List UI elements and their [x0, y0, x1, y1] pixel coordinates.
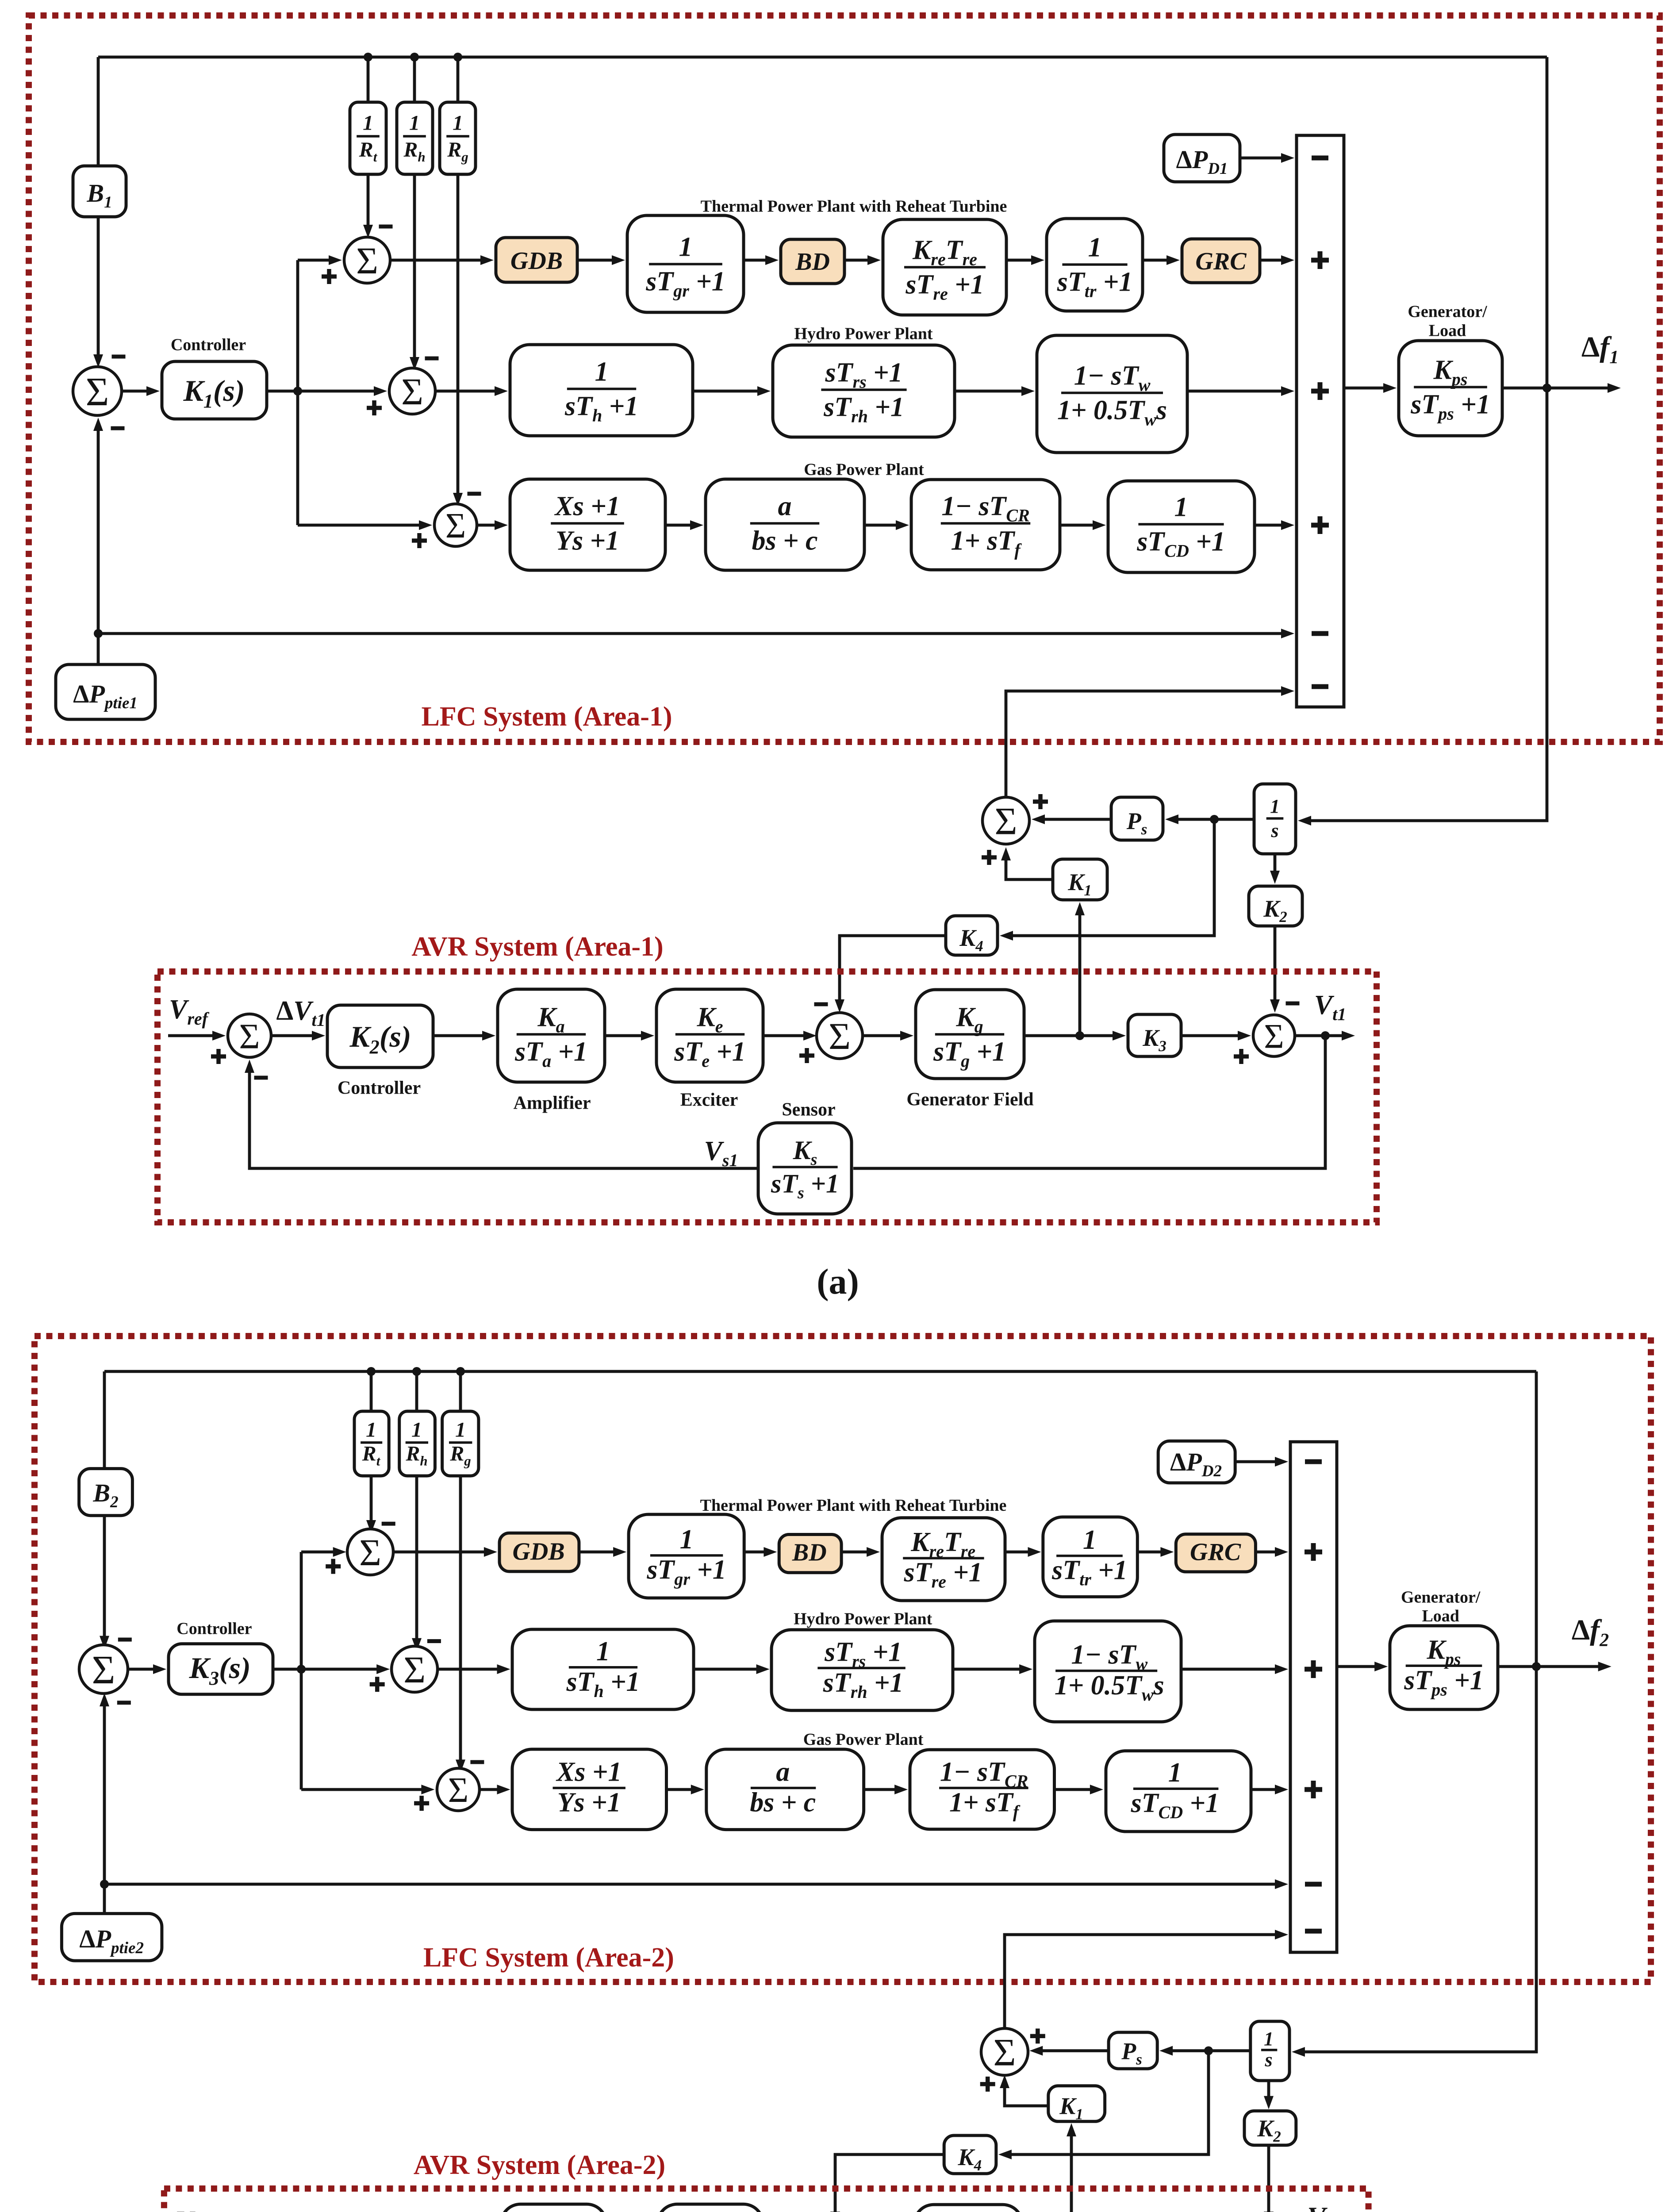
svg-text:Σ: Σ: [239, 1016, 260, 1056]
svg-text:1: 1: [1270, 795, 1280, 817]
block 1/Rg droop (Area-1): [440, 102, 476, 174]
wire generator-load output delta-f1 (Area-1): [1502, 387, 1608, 390]
svg-text:Controller: Controller: [171, 335, 246, 354]
node generator field output junction (Area-1): [1075, 1031, 1084, 1040]
sign minus at gas sum (Area-1): [468, 492, 481, 496]
wire 1/Rg drop to gas sum (Area-1): [457, 57, 460, 494]
block reheat turbine KreTre/(sTre+1) (Area-2): [882, 1518, 1005, 1601]
block gain K3 (Area-1): [1128, 1014, 1181, 1056]
svg-text:a: a: [778, 491, 792, 521]
svg-text:GDB: GDB: [510, 247, 563, 275]
summation bar (Area-2): [1290, 1442, 1337, 1952]
wire Vref into AVR sum (Area-1): [168, 1034, 213, 1037]
sign minus at ACE bottom (Area-1): [111, 426, 125, 430]
wire generator-load output delta-f2 (Area-2): [1498, 1665, 1599, 1668]
block load disturbance dP_D2 (Area-2): [1158, 1441, 1235, 1483]
svg-text:Σ: Σ: [993, 2032, 1016, 2074]
block integrator 1/s (Area-2): [1251, 2021, 1289, 2081]
block combustor (1-sTcr)/(1+sTf) (Area-1): [911, 480, 1060, 570]
wire 1/Rh drop to hydro sum (Area-2): [415, 1371, 418, 1639]
sign plus at thermal sum (Area-2): [326, 1559, 341, 1574]
block transient droop (sTrs+1)/(sTrh+1) (Area-1): [773, 345, 955, 437]
block tie-line power dP_ptie2 (Area-2): [61, 1913, 162, 1961]
wire branch to thermal sum (Area-2): [301, 1551, 334, 1554]
block coupling gain K2 (Area-2): [1244, 2111, 1296, 2146]
block coupling gain K1 (Area-2): [1048, 2086, 1105, 2122]
block exciter Ke/(sTe+1) (Area-1): [656, 989, 763, 1082]
svg-text:Controller: Controller: [177, 1620, 252, 1638]
block GDB governor dead band (Area-1): [496, 238, 577, 282]
block synchronizing coefficient Ps (Area-2): [1109, 2032, 1157, 2069]
wire K2 down to terminal voltage sum (Area-2): [1267, 2145, 1270, 2212]
wire transient droop to penstock block (Area-1): [955, 390, 1022, 393]
block coupling gain K4 (Area-2): [944, 2135, 996, 2174]
sign minus load input (Area-1): [1312, 156, 1328, 161]
svg-text:Exciter: Exciter: [680, 1090, 738, 1110]
svg-text:1: 1: [409, 111, 420, 135]
svg-text:(a): (a): [817, 1261, 859, 1302]
sign minus AVR coupling input (Area-1): [1312, 684, 1328, 689]
wire thermal sum to GDB (Area-2): [393, 1551, 485, 1554]
block integrator 1/s (Area-1): [1254, 784, 1296, 854]
wire turbine block to GRC (Area-2): [1137, 1551, 1161, 1554]
sign plus coupling bottom (Area-2): [980, 2077, 995, 2092]
svg-text:Gas Power Plant: Gas Power Plant: [803, 1730, 924, 1749]
wire gas governor to combustor block (Area-2): [864, 1788, 896, 1791]
summation bar (Area-1): [1297, 135, 1344, 707]
sign plus terminal sum (Area-1): [1234, 1049, 1249, 1064]
block reheat turbine KreTre/(sTre+1) (Area-1): [883, 219, 1006, 315]
block tie-line power dP_ptie1 (Area-1): [56, 664, 155, 719]
wire GDB to governor block (Area-1): [577, 259, 613, 262]
svg-text:AVR System (Area-2): AVR System (Area-2): [414, 2150, 665, 2180]
svg-text:Σ: Σ: [356, 239, 378, 282]
block BD boiler dynamics (Area-1): [781, 239, 844, 284]
svg-text:Generator Field: Generator Field: [906, 1090, 1033, 1110]
block hydro governor 1/(sTh+1) (Area-1): [510, 345, 693, 436]
block controller K1(s) (Area-1): [162, 361, 267, 419]
wire frequency feedback top line (Area-1): [98, 56, 1547, 59]
svg-text:Σ: Σ: [401, 370, 423, 413]
wire hydro governor to transient droop block (Area-2): [694, 1668, 757, 1671]
sign plus hydro input (Area-1): [1311, 382, 1329, 400]
svg-text:1: 1: [453, 111, 463, 135]
node junction after 1/s (Area-2): [1204, 2047, 1213, 2055]
block turbine 1/(sTtr+1) (Area-1): [1047, 219, 1143, 311]
AVR System (Area-2) dashed boundary: [164, 2189, 1369, 2212]
svg-text:Σ: Σ: [403, 1648, 426, 1691]
svg-text:1: 1: [1088, 232, 1102, 262]
wire branch to thermal sum (Area-1): [298, 259, 330, 262]
wire penstock to summation bar (Area-1): [1187, 390, 1282, 393]
block penstock (1-sTw)/(1+0.5Tws) (Area-2): [1035, 1621, 1181, 1722]
block AVR controller K2(s) (Area-1): [327, 1005, 433, 1068]
wire frequency feedback top line (Area-2): [104, 1370, 1536, 1373]
svg-text:AVR System (Area-1): AVR System (Area-1): [411, 932, 663, 962]
summing junction ACE (Area-1): [73, 367, 122, 415]
sign minus at gas sum (Area-2): [470, 1760, 484, 1764]
wire transient droop to penstock block (Area-2): [953, 1668, 1020, 1671]
wire 1/Rh drop to hydro sum (Area-1): [413, 57, 416, 358]
summing junction coupling (Area-2): [981, 2028, 1028, 2075]
block gas governor a/(bs+c) (Area-2): [706, 1749, 864, 1830]
svg-text:Σ: Σ: [359, 1531, 381, 1574]
wire gas sum to valve positioner (Area-1): [477, 524, 495, 527]
AVR System (Area-1) dashed boundary: [157, 972, 1377, 1222]
wire governor to BD (Area-2): [744, 1551, 764, 1554]
wire Ps to coupling sum (Area-2): [1042, 2049, 1109, 2052]
sign plus gas input (Area-2): [1305, 1781, 1322, 1798]
svg-text:1: 1: [596, 1636, 610, 1667]
wire combustor to compressor discharge block (Area-1): [1060, 524, 1094, 527]
svg-text:sTa +1: sTa +1: [514, 1037, 587, 1071]
wire generator field junction up to K1 (Area-2): [1070, 2135, 1073, 2212]
svg-text:Xs +1: Xs +1: [556, 1757, 622, 1787]
svg-text:K2(s): K2(s): [349, 1020, 411, 1058]
svg-text:Sensor: Sensor: [782, 1100, 835, 1120]
wire 1/s down to K2 (Area-1): [1274, 854, 1277, 872]
node delta-f2 output junction (Area-2): [1532, 1662, 1541, 1671]
sign plus thermal input (Area-1): [1311, 251, 1329, 269]
node terminal voltage junction (Area-1): [1321, 1031, 1330, 1040]
wire delta-f feedback right vertical into 1/s (Area-1): [1310, 57, 1547, 821]
block coupling gain K4 (Area-1): [946, 916, 998, 955]
svg-text:s: s: [1264, 2049, 1272, 2070]
wire branch to gas sum (Area-1): [298, 524, 420, 527]
block hydro governor 1/(sTh+1) (Area-2): [512, 1629, 694, 1709]
wire thermal sum to GDB (Area-1): [390, 259, 481, 262]
svg-text:K1(s): K1(s): [183, 374, 245, 412]
node tie-line junction (Area-1): [94, 629, 103, 638]
wire K2 down to terminal voltage sum (Area-1): [1274, 926, 1277, 1000]
summing junction gas (Area-2): [437, 1768, 480, 1811]
node controller output junction (Area-1): [293, 387, 302, 396]
svg-text:Ys +1: Ys +1: [556, 526, 619, 556]
wire 1/s to Ps (Area-2): [1172, 2049, 1251, 2052]
sign minus at hydro sum (Area-1): [425, 357, 439, 361]
wire ACE sum to controller K1(s) (Area-1): [122, 390, 147, 393]
summing junction AVR input (Area-1): [228, 1014, 271, 1057]
block GRC generation rate constraint (Area-2): [1176, 1534, 1255, 1572]
wire BD to reheat block (Area-1): [844, 259, 868, 262]
wire K3 to terminal voltage sum (Area-1): [1181, 1034, 1239, 1037]
svg-text:1: 1: [679, 232, 693, 262]
node delta-f1 output junction (Area-1): [1543, 384, 1551, 392]
svg-text:Σ: Σ: [829, 1015, 851, 1057]
svg-text:Generator/: Generator/: [1408, 302, 1487, 321]
sign minus exciter sum top (Area-1): [814, 1002, 828, 1006]
wire dP_ptie2 box stem (Area-2): [103, 1884, 106, 1913]
wire sensor feedback to AVR sum (Area-1): [249, 1072, 758, 1168]
wire tie-line to ACE sum (Area-2): [103, 1705, 106, 1884]
svg-text:sTg +1: sTg +1: [933, 1037, 1006, 1071]
block exciter Ke/(sTe+1) (Area-2): [658, 2204, 763, 2212]
svg-text:BD: BD: [795, 248, 830, 276]
wire K1 to coupling sum (Area-1): [1006, 860, 1053, 879]
svg-text:bs + c: bs + c: [752, 526, 818, 556]
node junction top line to 1/Rg (Area-2): [456, 1367, 465, 1376]
wire combustor to compressor discharge block (Area-2): [1055, 1788, 1091, 1791]
wire GRC to summation bar (Area-1): [1260, 259, 1282, 262]
sign minus tie-line input (Area-2): [1305, 1882, 1322, 1887]
sign minus load input (Area-2): [1305, 1459, 1322, 1464]
block gas governor a/(bs+c) (Area-1): [706, 479, 864, 570]
sign plus coupling right (Area-1): [1033, 794, 1048, 809]
wire coupling sum to summation bar (Area-2): [1005, 1935, 1276, 2032]
svg-text:Hydro Power Plant: Hydro Power Plant: [794, 1610, 932, 1628]
sign plus thermal input (Area-2): [1305, 1543, 1322, 1561]
wire hydro sum to hydro governor (Area-2): [438, 1668, 498, 1671]
svg-text:Σ: Σ: [92, 1647, 115, 1692]
svg-text:Hydro Power Plant: Hydro Power Plant: [794, 324, 932, 343]
block compressor discharge 1/(sTcd+1) (Area-1): [1108, 481, 1255, 572]
svg-text:Load: Load: [1429, 321, 1466, 340]
sign plus coupling bottom (Area-1): [982, 850, 997, 865]
block 1/Rg droop (Area-2): [442, 1411, 479, 1476]
LFC System Area-2 dashed boundary: [35, 1336, 1651, 1982]
svg-text:1: 1: [455, 1418, 466, 1442]
wire amplifier to exciter (Area-1): [605, 1034, 642, 1037]
block transient droop (sTrs+1)/(sTrh+1) (Area-2): [771, 1630, 953, 1710]
wire controller output branch vertical (Area-1): [296, 260, 299, 525]
summing junction exciter (Area-1): [817, 1013, 863, 1059]
wire tie-line power line to summation bar (Area-2): [104, 1883, 1276, 1886]
wire hydro sum to hydro governor (Area-1): [435, 390, 495, 393]
wire K1 to coupling sum (Area-2): [1005, 2087, 1048, 2106]
wire delta-f feedback right vertical into 1/s (Area-2): [1304, 1371, 1536, 2052]
node junction after 1/s (Area-1): [1210, 815, 1219, 824]
block valve positioner (Xs+1)/(Ys+1) (Area-1): [510, 479, 665, 570]
wire BD to reheat block (Area-2): [841, 1551, 867, 1554]
node junction top line to 1/Rt (Area-2): [367, 1367, 376, 1376]
svg-text:Amplifier: Amplifier: [514, 1093, 591, 1114]
node junction top line to 1/Rt (Area-1): [364, 53, 372, 61]
wire exciter sum to generator field (Area-1): [860, 1034, 901, 1037]
wire B1 droop branch vertical (Area-1): [97, 57, 100, 355]
wire tie-line to ACE sum (Area-1): [97, 430, 100, 634]
block 1/Rt droop (Area-1): [350, 102, 386, 174]
node controller output junction (Area-2): [297, 1665, 306, 1674]
wire 1/Rg drop to gas sum (Area-2): [459, 1371, 462, 1760]
svg-text:Load: Load: [1422, 1607, 1459, 1625]
wire 1/Rt drop to thermal sum (Area-1): [367, 57, 370, 226]
block generator field Kg/(sTg+1) (Area-1): [916, 990, 1024, 1079]
block generator-load Kps/(sTps+1) (Area-2): [1390, 1626, 1498, 1709]
svg-text:Σ: Σ: [86, 369, 109, 414]
sign minus at ACE bottom (Area-2): [117, 1701, 131, 1705]
svg-text:Xs +1: Xs +1: [554, 491, 620, 521]
wire dP_ptie1 box stem (Area-1): [97, 634, 100, 664]
wire load disturbance dP_D1 to summation bar (Area-1): [1240, 157, 1282, 160]
wire junction down to K4 (Area-1): [1012, 819, 1214, 936]
svg-text:1: 1: [595, 357, 609, 387]
svg-text:1: 1: [363, 111, 373, 135]
summing junction thermal (Area-2): [347, 1529, 393, 1575]
block combustor (1-sTcr)/(1+sTf) (Area-2): [910, 1750, 1055, 1829]
block compressor discharge 1/(sTcd+1) (Area-2): [1106, 1751, 1251, 1832]
wire generator field junction up to K1 (Area-1): [1078, 914, 1082, 1036]
summing junction ACE (Area-2): [79, 1645, 128, 1694]
wire governor to BD (Area-1): [744, 259, 766, 262]
wire reheat to turbine block (Area-1): [1006, 259, 1032, 262]
wire branch to gas sum (Area-2): [301, 1788, 422, 1791]
wire junction down to K4 (Area-2): [1011, 2051, 1209, 2155]
sign plus coupling right (Area-2): [1030, 2028, 1045, 2043]
wire exciter to exciter sum (Area-1): [763, 1034, 804, 1037]
sign minus at ACE top (Area-2): [118, 1638, 132, 1642]
svg-text:GRC: GRC: [1195, 248, 1247, 275]
svg-text:Gas Power Plant: Gas Power Plant: [804, 460, 924, 479]
svg-text:1: 1: [1174, 492, 1188, 522]
svg-text:Σ: Σ: [1264, 1017, 1284, 1055]
svg-text:s: s: [1270, 820, 1278, 841]
LFC System Area-1 dashed boundary: [29, 15, 1660, 742]
svg-text:bs + c: bs + c: [750, 1787, 816, 1817]
sign plus exciter sum (Area-1): [799, 1048, 814, 1063]
svg-text:GDB: GDB: [512, 1538, 564, 1566]
block generator-load Kps/(sTps+1) (Area-1): [1399, 341, 1502, 436]
wire GDB to governor block (Area-2): [579, 1551, 614, 1554]
sign minus at ACE top (Area-1): [112, 355, 126, 359]
svg-text:GRC: GRC: [1190, 1539, 1241, 1566]
sign plus AVR sum (Area-1): [211, 1049, 226, 1064]
block GDB governor dead band (Area-2): [499, 1533, 579, 1571]
svg-text:LFC System (Area-2): LFC System (Area-2): [423, 1943, 674, 1973]
summing junction hydro (Area-1): [389, 368, 435, 414]
svg-text:BD: BD: [792, 1539, 827, 1566]
wire 1/s down to K2 (Area-2): [1267, 2081, 1270, 2097]
svg-text:sTs +1: sTs +1: [771, 1169, 839, 1202]
svg-text:1+ sTf: 1+ sTf: [951, 526, 1022, 560]
block generator field Kg/(sTg+1) (Area-2): [914, 2204, 1022, 2212]
wire summation bar to generator-load block (Area-2): [1337, 1665, 1375, 1668]
wire K4 to exciter sum (Area-2): [835, 2154, 944, 2212]
wire ACE sum to controller K3(s) (Area-2): [128, 1668, 154, 1671]
block load disturbance dP_D1 (Area-1): [1164, 134, 1240, 182]
sign minus at hydro sum (Area-2): [427, 1639, 441, 1643]
sign minus tie-line input (Area-1): [1312, 631, 1328, 636]
sign plus gas input (Area-1): [1311, 516, 1329, 534]
sign plus at gas sum (Area-2): [414, 1796, 429, 1811]
summing junction hydro (Area-2): [391, 1646, 437, 1692]
block sensor Ks/(sTs+1) (Area-1): [758, 1123, 852, 1214]
svg-text:1+ sTf: 1+ sTf: [949, 1787, 1021, 1821]
sign minus AVR sum (Area-1): [254, 1076, 268, 1080]
wire gas governor to combustor block (Area-1): [864, 524, 897, 527]
wire coupling sum to summation bar (Area-1): [1006, 691, 1282, 797]
block turbine 1/(sTtr+1) (Area-2): [1043, 1517, 1138, 1597]
wire compressor discharge to summation bar (Area-2): [1251, 1788, 1276, 1791]
wire terminal voltage output V_t1 (Area-1): [1295, 1034, 1343, 1037]
wire generator field to K3 (Area-1): [1024, 1034, 1113, 1037]
node junction top line to 1/Rh (Area-1): [410, 53, 419, 61]
wire hydro governor to transient droop block (Area-1): [693, 390, 758, 393]
block controller K3(s) (Area-2): [169, 1644, 273, 1694]
svg-text:a: a: [776, 1757, 790, 1787]
sign plus at thermal sum (Area-1): [322, 269, 337, 284]
summing junction gas (Area-1): [434, 504, 477, 546]
block penstock (1-sTw)/(1+0.5Tws) (Area-1): [1037, 335, 1187, 453]
wire tie-line power line to summation bar (Area-1): [98, 632, 1282, 635]
sign plus at hydro sum (Area-2): [370, 1677, 385, 1692]
block BD boiler dynamics (Area-2): [779, 1535, 841, 1573]
block 1/Rh droop (Area-2): [399, 1411, 435, 1476]
wire 1/s to Ps (Area-1): [1178, 818, 1254, 821]
block synchronizing coefficient Ps (Area-1): [1111, 797, 1163, 840]
node junction top line to 1/Rh (Area-2): [412, 1367, 421, 1376]
svg-text:1: 1: [366, 1418, 376, 1442]
svg-text:Σ: Σ: [448, 1771, 469, 1810]
block B2 frequency bias (Area-2): [79, 1469, 133, 1516]
svg-text:K3(s): K3(s): [189, 1651, 251, 1689]
node junction top line to 1/Rg (Area-1): [453, 53, 462, 61]
block speed governor 1/(sTgr+1) (Area-2): [629, 1514, 744, 1598]
block 1/Rt droop (Area-2): [354, 1411, 389, 1476]
wire GRC to summation bar (Area-2): [1255, 1551, 1276, 1554]
sign plus at gas sum (Area-1): [412, 533, 427, 548]
svg-text:Σ: Σ: [994, 800, 1017, 843]
wire penstock to summation bar (Area-2): [1181, 1668, 1276, 1671]
wire summation bar to generator-load block (Area-1): [1344, 387, 1384, 390]
block valve positioner (Xs+1)/(Ys+1) (Area-2): [512, 1749, 667, 1830]
sign minus at thermal sum (Area-2): [382, 1522, 395, 1526]
wire terminal voltage down to sensor (Area-1): [853, 1036, 1325, 1168]
wire 1/Rt drop to thermal sum (Area-2): [370, 1371, 373, 1521]
svg-text:1: 1: [411, 1418, 422, 1442]
wire reheat to turbine block (Area-2): [1005, 1551, 1029, 1554]
wire controller output branch vertical (Area-2): [300, 1552, 303, 1790]
svg-text:1: 1: [680, 1525, 694, 1555]
sign minus at thermal sum (Area-1): [379, 225, 393, 229]
svg-text:Controller: Controller: [338, 1078, 421, 1098]
block amplifier Ka/(sTa+1) (Area-1): [498, 989, 605, 1082]
block 1/Rh droop (Area-1): [397, 102, 433, 174]
summing junction terminal voltage (Area-1): [1253, 1015, 1295, 1056]
wire gas sum to valve positioner (Area-2): [480, 1788, 498, 1791]
wire load disturbance dP_D2 to summation bar (Area-2): [1235, 1460, 1276, 1463]
svg-text:1: 1: [1168, 1758, 1182, 1788]
block B1 frequency bias (Area-1): [73, 166, 126, 217]
node tie-line junction (Area-2): [100, 1880, 109, 1889]
svg-text:Ys +1: Ys +1: [557, 1787, 621, 1817]
wire controller to amplifier (Area-1): [433, 1034, 483, 1037]
wire Ps to coupling sum (Area-1): [1044, 818, 1111, 821]
sign minus AVR coupling input (Area-2): [1305, 1929, 1322, 1934]
block coupling gain K2 (Area-1): [1249, 886, 1302, 926]
block coupling gain K1 (Area-1): [1053, 859, 1107, 900]
wire compressor discharge to summation bar (Area-1): [1255, 524, 1282, 527]
sign plus hydro input (Area-2): [1305, 1660, 1322, 1678]
block speed governor 1/(sTgr+1) (Area-1): [627, 215, 744, 312]
block amplifier Ka/(sTa+1) (Area-2): [501, 2204, 606, 2212]
block GRC generation rate constraint (Area-1): [1182, 239, 1260, 283]
wire turbine block to GRC (Area-1): [1143, 259, 1167, 262]
wire valve positioner to speed governor (Area-2): [667, 1788, 692, 1791]
wire controller output to hydro sum (Area-1): [267, 390, 375, 393]
wire valve positioner to speed governor (Area-1): [665, 524, 691, 527]
svg-text:sTe +1: sTe +1: [674, 1037, 746, 1071]
summing junction coupling (Area-1): [982, 797, 1029, 844]
wire AVR sum to controller K2(s) (Area-1): [271, 1034, 313, 1037]
svg-text:1: 1: [1083, 1525, 1097, 1555]
summing junction thermal (Area-1): [344, 237, 390, 283]
wire controller output to hydro sum (Area-2): [273, 1668, 377, 1671]
svg-text:1: 1: [1264, 2028, 1274, 2050]
wire B2 droop branch vertical (Area-2): [103, 1371, 106, 1637]
sign minus terminal sum top (Area-1): [1286, 1002, 1300, 1006]
wire K4 to exciter sum (Area-1): [840, 936, 946, 1000]
svg-text:Generator/: Generator/: [1401, 1588, 1481, 1606]
